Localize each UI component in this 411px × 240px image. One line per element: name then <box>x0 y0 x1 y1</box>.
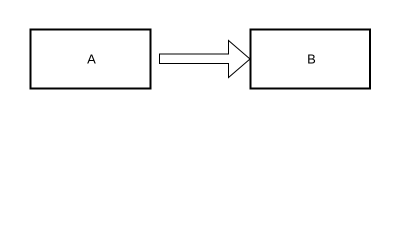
box B <box>251 30 371 89</box>
svg-text:A: A <box>87 52 96 67</box>
block arrow <box>160 41 251 78</box>
svg-text:B: B <box>307 52 316 67</box>
box A <box>31 30 151 89</box>
